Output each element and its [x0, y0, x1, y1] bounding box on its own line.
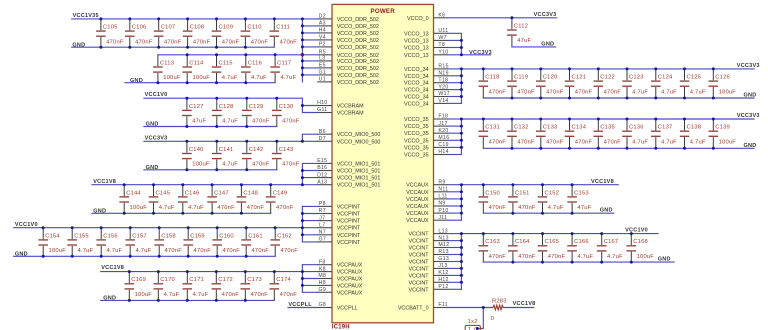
pin F18 VCCO_35	[404, 114, 448, 123]
wire to pin	[302, 39, 317, 41]
svg-text:C106: C106	[132, 25, 147, 31]
svg-text:470nF: 470nF	[604, 89, 622, 95]
capacitor C161 470nF	[241, 228, 269, 257]
capacitor C117 4.7uF	[270, 55, 296, 83]
svg-text:VCCPAUX: VCCPAUX	[337, 290, 363, 296]
svg-text:C149: C149	[273, 190, 288, 196]
svg-text:4.7uF: 4.7uF	[632, 89, 648, 95]
svg-text:4.7uF: 4.7uF	[188, 205, 204, 211]
svg-text:4.7uF: 4.7uF	[164, 292, 180, 298]
svg-text:470nF: 470nF	[518, 254, 536, 260]
svg-text:VCCO_MIO1_501: VCCO_MIO1_501	[337, 183, 381, 189]
junction dots GND rail C105 bank	[99, 46, 247, 49]
junction dots GND rail C113 bank	[156, 81, 247, 84]
capacitor C118 470nF	[479, 69, 507, 98]
wire F11 to header J1	[477, 308, 483, 329]
svg-text:C158: C158	[161, 233, 176, 239]
capacitor C150 470nF	[479, 185, 507, 214]
capacitor C136 4.7uF	[622, 119, 648, 148]
junction dots GND rail C118 bank	[511, 97, 715, 100]
capacitor C148 470nF	[237, 185, 265, 214]
svg-text:VCCINT: VCCINT	[409, 260, 430, 266]
capacitor C153 47uF	[567, 185, 591, 214]
pin V14 VCCO_34	[404, 98, 449, 107]
wire bus pins	[460, 119, 462, 155]
pin D7 VCCO_MIO0_500	[317, 136, 380, 145]
svg-text:100uF: 100uF	[193, 75, 211, 81]
wire to pin	[302, 60, 317, 62]
svg-text:470nF: 470nF	[489, 205, 507, 211]
svg-text:J7: J7	[319, 215, 325, 221]
junction dots GND rail C150 bank	[511, 212, 573, 215]
pin Y10 VCCO_13	[404, 50, 449, 59]
wire to pin	[448, 274, 461, 276]
junction dots VCC1V0 rail	[185, 97, 278, 100]
capacitor C141 4.7uF	[212, 141, 238, 170]
wire F11 to R283	[448, 307, 493, 309]
capacitor C114 100uF	[182, 55, 210, 83]
wire to pin	[448, 247, 461, 249]
capacitor C168 100uF	[627, 234, 655, 263]
capacitor C109 470nF	[212, 19, 240, 47]
svg-text:IC19H: IC19H	[332, 324, 350, 330]
capacitor C146 4.7uF	[178, 185, 204, 214]
svg-text:G7: G7	[319, 237, 327, 243]
wire to pin	[448, 139, 461, 141]
resistor R283 0ohm	[491, 299, 507, 322]
capacitor C119 470nF	[507, 69, 535, 98]
junction dots GND rail C144 bank	[123, 212, 243, 215]
svg-text:4.7uF: 4.7uF	[607, 254, 623, 260]
svg-text:4.7uF: 4.7uF	[251, 75, 267, 81]
pin K20 VCCO_35	[404, 128, 449, 137]
junction dots GND rail C140 bank	[185, 168, 248, 171]
junction dots VCC1V8 rail2	[128, 270, 276, 273]
wire to pin	[448, 102, 461, 104]
svg-text:D7: D7	[319, 136, 326, 142]
svg-text:100uF: 100uF	[719, 89, 737, 95]
pin L13 VCCINT	[409, 228, 449, 237]
junction dots bus B16,D12,A13	[301, 169, 304, 186]
wire to pin	[302, 177, 317, 179]
wire VCC3V3 rail C131 bank	[461, 118, 754, 120]
pin N13 VCCINT	[409, 235, 449, 244]
wire bus VCC1V35 to pins A3..U1	[301, 19, 303, 82]
capacitor C155 4.7uF	[67, 228, 93, 257]
pin B6 VCCO_MIO0_500	[317, 129, 380, 138]
pin H14 VCCO_35	[404, 149, 449, 158]
pin G8 VCCPLL	[317, 302, 357, 311]
capacitor C122 470nF	[594, 69, 622, 98]
svg-text:N11: N11	[438, 187, 448, 193]
svg-text:Y10: Y10	[438, 50, 448, 56]
svg-text:E15: E15	[317, 158, 327, 164]
svg-text:C134: C134	[572, 125, 587, 131]
capacitor C154 100uF	[38, 228, 66, 257]
svg-text:470nF: 470nF	[247, 205, 265, 211]
capacitor C133 470nF	[536, 119, 564, 148]
svg-text:100uF: 100uF	[719, 139, 737, 145]
svg-text:470nF: 470nF	[135, 39, 153, 45]
wire to pin	[448, 146, 461, 148]
capacitor C172 470nF	[212, 272, 240, 301]
capacitor C134 470nF	[565, 119, 593, 148]
svg-text:470nF: 470nF	[194, 248, 212, 254]
svg-text:D2: D2	[319, 14, 326, 20]
pin J13 VCCINT	[409, 263, 449, 272]
svg-text:R283: R283	[492, 299, 507, 305]
pin H8 VCCPAUX	[317, 280, 363, 289]
wire to VCCPINT pin	[302, 220, 317, 222]
svg-text:VCCINT: VCCINT	[409, 287, 430, 293]
pin C19 VCCO_35	[404, 142, 449, 151]
pin N7 VCCPINT	[317, 230, 361, 239]
capacitor C121 470nF	[565, 69, 593, 98]
svg-text:B6: B6	[319, 129, 326, 135]
svg-text:VCCO_34: VCCO_34	[404, 101, 429, 107]
pin A13 VCCO_MIO1_501	[317, 179, 380, 188]
svg-text:P10: P10	[438, 208, 448, 214]
capacitor C107 470nF	[154, 19, 182, 47]
wire to pin	[448, 288, 461, 290]
wire to pin	[448, 198, 461, 200]
svg-text:VCCO_DDR_502: VCCO_DDR_502	[337, 38, 379, 44]
svg-text:VCCAUX: VCCAUX	[406, 197, 429, 203]
wire VCC3V3 rail C118 bank	[461, 68, 754, 70]
capacitor C139 100uF	[709, 119, 737, 148]
svg-text:VCCPAUX: VCCPAUX	[337, 263, 363, 269]
wire VCC1V35 rail to pin D2	[72, 18, 318, 20]
junction dot header pin1	[476, 327, 479, 330]
svg-text:C140: C140	[189, 147, 204, 153]
svg-text:R7: R7	[319, 208, 326, 214]
wire to pin	[448, 184, 461, 186]
pin W7 VCCO_13	[404, 35, 448, 44]
svg-text:N9: N9	[438, 201, 445, 207]
svg-text:GND: GND	[130, 78, 143, 84]
junction dots VCC1V35 rail2	[186, 53, 277, 56]
pin J11 VCCAUX	[406, 215, 448, 224]
wire to pin	[448, 118, 461, 120]
svg-text:470nF: 470nF	[280, 292, 298, 298]
pin A3 VCCO_DDR_502	[317, 21, 379, 30]
svg-text:470nF: 470nF	[489, 89, 507, 95]
svg-text:GND: GND	[744, 93, 757, 99]
capacitor C159 470nF	[183, 228, 211, 257]
wire to VCCPINT pin	[302, 205, 317, 207]
capacitor C174 470nF	[270, 272, 298, 301]
capacitor C169 100uF	[125, 272, 153, 301]
svg-text:VCCPINT: VCCPINT	[337, 219, 361, 225]
svg-text:C147: C147	[214, 190, 229, 196]
svg-text:P2: P2	[319, 42, 326, 48]
svg-text:A13: A13	[317, 179, 327, 185]
svg-text:VCCPINT: VCCPINT	[337, 226, 361, 232]
svg-text:VCCO_DDR_502: VCCO_DDR_502	[337, 66, 379, 72]
svg-text:C155: C155	[74, 233, 89, 239]
pin G11 VCCBRAM	[317, 107, 364, 116]
svg-text:VCC3V3: VCC3V3	[469, 50, 492, 56]
capacitor C127 47uF	[182, 98, 206, 126]
wire to VCCAUX pin	[302, 291, 317, 293]
pin M16 VCCO_35	[404, 135, 449, 144]
svg-text:VCCAUX: VCCAUX	[406, 204, 429, 210]
pin N11 VCCAUX	[406, 187, 448, 196]
svg-text:470nF: 470nF	[489, 139, 507, 145]
wire to pin	[448, 219, 461, 221]
svg-text:F8: F8	[319, 259, 326, 265]
svg-text:470nF: 470nF	[489, 254, 507, 260]
wire bus VCCAUX pins	[301, 265, 303, 293]
svg-text:L11: L11	[438, 194, 447, 200]
svg-text:470nF: 470nF	[548, 254, 566, 260]
svg-text:R13: R13	[438, 249, 448, 255]
svg-text:C116: C116	[248, 60, 262, 66]
junction dots bus pins	[460, 67, 463, 98]
wire GND rail C113-C117	[125, 82, 275, 84]
pin L11 VCCAUX	[406, 194, 448, 203]
svg-text:C163: C163	[485, 239, 500, 245]
connector J1 1x2 header	[465, 319, 480, 330]
junction dot F11/R283	[482, 306, 485, 309]
svg-text:C125: C125	[687, 75, 702, 81]
svg-text:4.7uF: 4.7uF	[222, 75, 238, 81]
svg-text:470nF: 470nF	[251, 39, 269, 45]
svg-text:C131: C131	[485, 125, 500, 131]
svg-text:470nF: 470nF	[251, 292, 269, 298]
wire GND rail C127-C130	[144, 126, 277, 128]
pin T8 VCCO_13	[404, 42, 448, 51]
svg-text:100uF: 100uF	[637, 254, 655, 260]
svg-text:470nF: 470nF	[252, 162, 270, 168]
svg-text:R5: R5	[319, 50, 326, 56]
svg-text:4.7uF: 4.7uF	[222, 119, 238, 125]
svg-text:470nF: 470nF	[282, 162, 300, 168]
wire to VCCPINT pin	[302, 227, 317, 229]
svg-text:B16: B16	[317, 165, 327, 171]
wire to pin	[448, 96, 461, 98]
wire VCC1V0 rail C154-C162	[14, 227, 303, 229]
svg-text:VCCAUX: VCCAUX	[406, 211, 429, 217]
svg-text:VCC3V3: VCC3V3	[534, 12, 557, 18]
wire to pin	[448, 240, 461, 242]
pin R9 VCCAUX	[406, 179, 448, 188]
svg-text:G13: G13	[438, 256, 449, 262]
svg-text:C152: C152	[545, 190, 560, 196]
svg-text:V14: V14	[438, 98, 448, 104]
wire to VCCO_13 pin	[448, 47, 461, 49]
wire GND rail C150 bank	[483, 212, 614, 214]
svg-text:C136: C136	[629, 125, 644, 131]
svg-text:C154: C154	[45, 233, 60, 239]
svg-text:C110: C110	[247, 25, 261, 31]
svg-text:VCCAUX: VCCAUX	[406, 218, 429, 224]
wire GND rail C154-C162	[14, 255, 276, 257]
svg-text:U1: U1	[319, 77, 326, 83]
capacitor C162 470nF	[270, 228, 298, 257]
svg-text:C143: C143	[279, 147, 294, 153]
svg-text:VCCO_34: VCCO_34	[404, 95, 429, 101]
capacitor C173 470nF	[241, 272, 269, 301]
svg-text:C133: C133	[543, 125, 558, 131]
wire to pin	[302, 74, 317, 76]
svg-text:C160: C160	[219, 233, 234, 239]
svg-text:VCCO_35: VCCO_35	[404, 117, 429, 123]
pin M12 VCCINT	[409, 242, 450, 251]
wire to VCCPINT pin	[302, 241, 317, 243]
pin F11 VCCBATT_0	[398, 302, 448, 311]
svg-text:C120: C120	[543, 75, 558, 81]
capacitor C143 470nF	[272, 141, 300, 170]
svg-text:C168: C168	[633, 239, 648, 245]
pin D2 VCCO_DDR_502	[317, 14, 379, 23]
capacitor C164 470nF	[508, 234, 536, 263]
svg-text:L3: L3	[319, 56, 325, 62]
wire to pin	[302, 32, 317, 34]
junction dots VCC3V3 rail C118 bank	[482, 67, 715, 70]
capacitor C105 470nF	[96, 19, 124, 47]
capacitor C145 4.7uF	[149, 185, 175, 214]
wire to pin	[302, 46, 317, 48]
junction dots VCC1V0 rail C154 bank	[42, 226, 277, 229]
pin R7 VCCPINT	[317, 208, 361, 217]
svg-text:W7: W7	[438, 35, 446, 41]
svg-text:470nF: 470nF	[517, 89, 535, 95]
svg-text:C166: C166	[574, 239, 589, 245]
junction dots GND rail C131 bank	[511, 147, 715, 150]
svg-text:VCCPINT: VCCPINT	[337, 233, 361, 239]
wire VCC1V35 rail2 C113-C117	[158, 54, 303, 56]
wire VCCPLL to pin G8	[288, 307, 318, 309]
capacitor C158 470nF	[154, 228, 182, 257]
svg-text:VCCO_DDR_502: VCCO_DDR_502	[337, 53, 379, 59]
svg-text:C135: C135	[600, 125, 615, 131]
svg-text:470nF: 470nF	[546, 89, 564, 95]
svg-text:VCCPLL: VCCPLL	[337, 306, 358, 312]
junction dots GND rail C163 bank	[511, 261, 632, 264]
svg-text:47uF: 47uF	[577, 205, 591, 211]
wire to VCCPINT pin	[302, 234, 317, 236]
svg-text:470nF: 470nF	[252, 248, 270, 254]
wire VCC1V0 rail C163 bank	[461, 233, 658, 235]
capacitor C131 470nF	[479, 119, 507, 148]
svg-text:C139: C139	[715, 125, 730, 131]
svg-text:VCCO_35: VCCO_35	[404, 138, 429, 144]
svg-text:VCCPINT: VCCPINT	[337, 240, 361, 246]
svg-text:C142: C142	[249, 147, 264, 153]
svg-text:R15: R15	[438, 64, 448, 70]
pin K12 VCCINT	[409, 270, 449, 279]
svg-text:T18: T18	[438, 77, 448, 83]
svg-text:VCCO_DDR_502: VCCO_DDR_502	[337, 31, 379, 37]
svg-text:VCCINT: VCCINT	[409, 239, 430, 245]
svg-text:470nF: 470nF	[276, 205, 294, 211]
svg-text:C161: C161	[248, 233, 263, 239]
wire bus VCCPINT pins	[301, 206, 303, 242]
pin R13 VCCINT	[409, 249, 449, 258]
svg-text:470nF: 470nF	[222, 292, 240, 298]
svg-text:C141: C141	[219, 147, 234, 153]
svg-text:VCCINT: VCCINT	[409, 266, 430, 272]
svg-text:C153: C153	[574, 190, 589, 196]
svg-text:4.7uF: 4.7uF	[136, 248, 152, 254]
pin P12 VCCINT	[409, 284, 449, 293]
svg-text:VCCO_MIO1_501: VCCO_MIO1_501	[337, 161, 381, 167]
svg-text:100uF: 100uF	[130, 205, 148, 211]
svg-text:VCCO_13: VCCO_13	[404, 31, 429, 37]
wire GND rail C118 bank	[483, 97, 754, 99]
svg-text:470nF: 470nF	[546, 139, 564, 145]
pin J7 VCCPINT	[317, 215, 361, 224]
svg-text:H4: H4	[319, 28, 326, 34]
svg-text:C164: C164	[515, 239, 530, 245]
svg-text:C112: C112	[514, 23, 528, 29]
pin B16 VCCO_MIO1_501	[317, 165, 380, 174]
svg-text:GND: GND	[146, 122, 159, 128]
svg-text:C111: C111	[276, 25, 290, 31]
junction node VCC1V35 bus tee (red)	[301, 53, 305, 57]
pin D12 VCCO_MIO1_501	[317, 172, 380, 181]
svg-text:C124: C124	[658, 75, 673, 81]
capacitor C116 4.7uF	[241, 55, 267, 83]
svg-text:VCCINT: VCCINT	[409, 280, 430, 286]
svg-text:U11: U11	[438, 28, 448, 34]
svg-text:VCCBRAM: VCCBRAM	[337, 111, 364, 117]
wire to pin	[302, 25, 317, 27]
svg-text:C115: C115	[219, 60, 233, 66]
svg-text:E5: E5	[319, 63, 326, 69]
svg-text:C128: C128	[219, 104, 234, 110]
svg-text:470nF: 470nF	[106, 39, 124, 45]
wire to VCCO_13 pin	[448, 39, 461, 41]
svg-text:G8: G8	[319, 302, 327, 308]
svg-text:VCCO_35: VCCO_35	[404, 145, 429, 151]
svg-text:C148: C148	[243, 190, 258, 196]
svg-text:VCCO_13: VCCO_13	[404, 38, 429, 44]
svg-text:VCC3V3: VCC3V3	[737, 63, 760, 69]
svg-text:VCC1V0: VCC1V0	[625, 228, 648, 234]
svg-text:C174: C174	[276, 277, 291, 283]
pin M8 VCCPAUX	[317, 273, 363, 282]
svg-text:C105: C105	[103, 25, 118, 31]
junction dot C112	[510, 16, 513, 19]
svg-text:GND: GND	[103, 296, 116, 302]
svg-text:4.7uF: 4.7uF	[632, 139, 648, 145]
capacitor C132 470nF	[507, 119, 535, 148]
svg-text:L13: L13	[438, 228, 448, 234]
wire GND rail C144-C149	[92, 212, 271, 214]
svg-text:C107: C107	[161, 25, 176, 31]
pin P8 VCCPINT	[317, 201, 361, 210]
svg-text:J17: J17	[438, 121, 447, 127]
svg-text:1x2: 1x2	[468, 319, 478, 325]
wire bus VCCO_13 pins	[448, 33, 461, 55]
svg-text:C121: C121	[572, 75, 587, 81]
junction dot H10	[301, 104, 304, 107]
svg-text:C114: C114	[189, 60, 204, 66]
svg-text:VCC1V35: VCC1V35	[73, 13, 99, 19]
svg-text:47uF: 47uF	[192, 119, 206, 125]
junction dots GND rail C127 bank	[185, 125, 248, 128]
svg-text:470nF: 470nF	[164, 39, 182, 45]
capacitor C125 4.7uF	[680, 69, 706, 98]
junction dots GND rail C169 bank	[128, 299, 247, 302]
svg-text:VCCINT: VCCINT	[409, 246, 430, 252]
wire to VCCAUX pin	[302, 278, 317, 280]
svg-text:C171: C171	[189, 277, 204, 283]
svg-text:K6: K6	[438, 13, 445, 19]
svg-text:VCCINT: VCCINT	[409, 253, 430, 259]
